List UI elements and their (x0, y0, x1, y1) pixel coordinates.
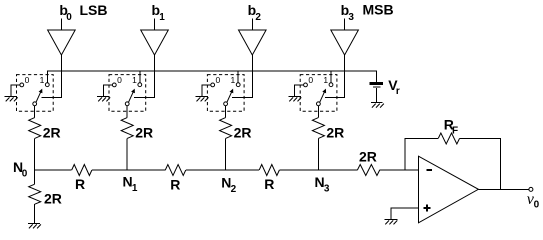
svg-text:0: 0 (308, 75, 313, 85)
wire: S2 pole down to resistor 2R (225, 106, 227, 118)
resistor 2R (N3 to op-amp input) (357, 165, 379, 176)
ground (op-amp + input) (384, 219, 397, 224)
resistor R (N0-N1) (72, 165, 92, 176)
buffer U1 (bit b1 driver) (141, 19, 169, 56)
resistor 2R (bank 0) (29, 118, 41, 139)
resistor 2R (bank 2) (220, 118, 232, 139)
node N2 (221, 174, 236, 195)
resistor 2R (bank 1) (121, 118, 133, 139)
svg-text:1: 1 (231, 75, 236, 85)
wire: resistor 2R bottom to node N1 (126, 138, 128, 170)
svg-text:1: 1 (40, 75, 45, 85)
resistor R (N1-N2) (165, 165, 185, 176)
contact 1 terminal of S3 (329, 83, 333, 87)
wire: termination resistor to ground (34, 204, 36, 223)
contact 0 terminal of S1 (112, 83, 116, 87)
wire: S3 contact-1 to Vr bus (330, 71, 332, 83)
ground (battery Vr) (371, 103, 384, 108)
wire: N0 down to terminating resistor (34, 170, 36, 184)
ground (S0 contact-0) (5, 96, 18, 101)
battery Vr (reference voltage source) (369, 84, 383, 103)
svg-text:0: 0 (534, 200, 540, 211)
svg-text:0: 0 (25, 75, 30, 85)
ground (S2 contact-0) (196, 96, 209, 101)
label RF (444, 116, 458, 136)
svg-text:3: 3 (324, 183, 330, 194)
wire: buffer U0 output to switch wiper (control) (41, 55, 61, 97)
pole terminal of S3 (317, 102, 321, 106)
node N3 (315, 174, 330, 195)
wire: S0 contact-0 to ground (11, 85, 20, 97)
wiper arrow of S3 (320, 89, 326, 103)
contact 0 terminal of S2 (211, 83, 215, 87)
wiper arrow of S1 (129, 89, 135, 103)
wire: S1 contact-1 to Vr bus (139, 71, 141, 83)
contact 1 terminal of S0 (45, 83, 49, 87)
svg-text:2R: 2R (359, 149, 377, 165)
pole terminal of S1 (125, 102, 129, 106)
wire: S2 contact-1 to Vr bus (237, 71, 239, 83)
resistor 2R (bank 3) (312, 118, 324, 139)
wire: S1 pole down to resistor 2R (126, 106, 128, 118)
contact 1 terminal of S1 (138, 83, 142, 87)
ground (S3 contact-0) (288, 96, 301, 101)
wire: S0 pole down to resistor 2R (34, 106, 36, 118)
svg-text:R: R (170, 176, 180, 192)
svg-text:MSB: MSB (363, 2, 394, 18)
ground (S1 contact-0) (97, 96, 110, 101)
svg-text:R: R (75, 176, 85, 192)
svg-text:2R: 2R (135, 125, 153, 141)
wire: S1 contact-0 to ground (103, 85, 112, 97)
wire: S2 contact-0 to ground (202, 85, 211, 97)
pole terminal of S0 (33, 102, 37, 106)
resistor RF (feedback) (438, 133, 459, 144)
wiper arrow of S2 (227, 89, 233, 103)
contact 0 terminal of S0 (20, 83, 24, 87)
wire: resistor 2R bottom to node N0 (34, 138, 36, 170)
pole terminal of S2 (224, 102, 228, 106)
label Vr (388, 77, 400, 97)
svg-text:2: 2 (231, 184, 237, 195)
svg-text:0: 0 (216, 75, 221, 85)
ground (N0 termination) (28, 223, 41, 228)
svg-text:1: 1 (132, 75, 137, 85)
wire: resistor 2R bottom to node N2 (225, 138, 227, 170)
buffer U0 (bit b0 driver) (48, 19, 76, 56)
wire: Vr reference bus (47, 71, 376, 83)
wire: buffer U1 output to switch wiper (control) (134, 55, 155, 97)
wire: resistor 2R bottom to node N3 (317, 138, 319, 170)
buffer U3 (bit b3 driver) (331, 19, 359, 56)
label b1 (152, 2, 166, 23)
node N0 (13, 159, 28, 180)
svg-text:LSB: LSB (80, 2, 108, 18)
wire: ladder rail N0..N3 to op-amp inverting input (35, 169, 419, 171)
switch S2 (SPDT, bit b2) dashed enclosure (207, 75, 244, 112)
switch S3 (SPDT, bit b3) dashed enclosure (300, 75, 337, 112)
resistor R (N2-N3) (259, 165, 279, 176)
contact 0 terminal of S3 (304, 83, 308, 87)
output terminal v0 (529, 187, 533, 191)
svg-text:0: 0 (22, 169, 28, 180)
label v0 (527, 191, 540, 211)
wire: S3 contact-0 to ground (295, 85, 304, 97)
svg-text:r: r (396, 86, 400, 97)
node N1 (123, 173, 138, 194)
wire: op-amp non-inverting input to ground (391, 208, 419, 219)
svg-text:2: 2 (255, 12, 261, 23)
wire: feedback from inverting input (405, 139, 438, 171)
contact 1 terminal of S2 (236, 83, 240, 87)
wire: feedback to output (460, 139, 501, 190)
wire: buffer U2 output to switch wiper (control) (232, 55, 252, 97)
svg-text:R: R (264, 176, 274, 192)
wire: op-amp output (478, 188, 529, 190)
svg-text:2R: 2R (234, 125, 252, 141)
label b2 (248, 2, 262, 23)
svg-text:2R: 2R (44, 191, 62, 207)
wire: S3 pole down to resistor 2R (317, 106, 319, 118)
wiper arrow of S0 (36, 89, 42, 103)
svg-text:1: 1 (159, 12, 165, 23)
svg-text:0: 0 (66, 12, 72, 23)
op-amp U5 (419, 156, 479, 223)
resistor 2R (N0 termination) (29, 184, 41, 204)
switch S0 (SPDT, bit b0) dashed enclosure (17, 75, 54, 112)
svg-text:3: 3 (348, 12, 354, 23)
svg-text:1: 1 (132, 183, 138, 194)
svg-text:2R: 2R (326, 125, 344, 141)
buffer U2 (bit b2 driver) (239, 19, 267, 56)
svg-text:0: 0 (117, 75, 122, 85)
label b0 LSB (59, 2, 107, 23)
switch S1 (SPDT, bit b1) dashed enclosure (109, 75, 146, 112)
svg-text:F: F (452, 126, 458, 137)
label b3 MSB (341, 2, 394, 24)
svg-text:2R: 2R (43, 125, 61, 141)
wire: buffer U3 output to switch wiper (control) (325, 55, 345, 97)
svg-text:1: 1 (323, 75, 328, 85)
